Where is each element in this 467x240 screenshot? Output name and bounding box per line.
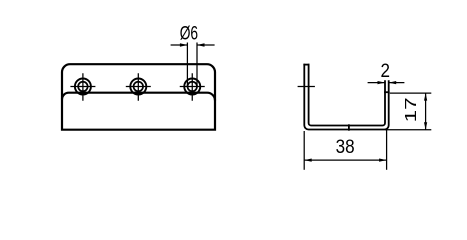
- dimension 2 dim line: [368, 82, 405, 84]
- front plate top edge: [62, 93, 215, 101]
- dimension 17 dim line: [425, 93, 427, 130]
- dimension 2 left arrow: [378, 81, 386, 84]
- dimension D6 right arrow: [197, 43, 205, 46]
- svg-text:17: 17: [403, 97, 420, 122]
- dimension 38 right arrow: [379, 158, 387, 161]
- hole H1 inner circle: [78, 82, 88, 92]
- side view left wall cap: [303, 64, 309, 66]
- hole H3 inner circle: [188, 82, 198, 92]
- dimension 17 top arrow: [424, 93, 427, 101]
- side view left wall hole center tick: [298, 86, 315, 88]
- dimension 38 left extension line: [303, 131, 305, 170]
- side view right wall cap: [384, 91, 390, 93]
- side view outer profile: [304, 64, 388, 130]
- dimension 17 top extension line: [390, 92, 432, 94]
- side view bottom center tick: [348, 124, 350, 130]
- hole H3 center cross: [180, 73, 205, 101]
- hole H1 outer circle: [75, 79, 91, 95]
- hole H2 outer circle: [130, 79, 146, 95]
- dimension D6 left arrow: [180, 43, 188, 46]
- dimension 38 left arrow: [304, 158, 312, 161]
- hole H2 center cross: [126, 73, 151, 101]
- hole H2 inner circle: [134, 82, 144, 92]
- hole H3 outer circle: [184, 79, 200, 95]
- dimension 17 bottom arrow: [424, 122, 427, 130]
- dimension D6 extension lines: [187, 43, 197, 87]
- svg-text:Ø6: Ø6: [180, 23, 198, 45]
- dimension 2 right arrow: [389, 81, 397, 84]
- dimension D6 dim line: [171, 44, 215, 46]
- side view inner profile: [309, 64, 385, 126]
- dimension 17 bottom extension line: [385, 129, 431, 131]
- front view outer outline: [62, 64, 215, 130]
- svg-text:38: 38: [336, 136, 355, 158]
- dimension 38 dim line: [304, 159, 386, 161]
- hole H1 center cross: [70, 73, 95, 101]
- svg-text:2: 2: [380, 60, 390, 82]
- dimension 38 right extension line: [386, 129, 388, 170]
